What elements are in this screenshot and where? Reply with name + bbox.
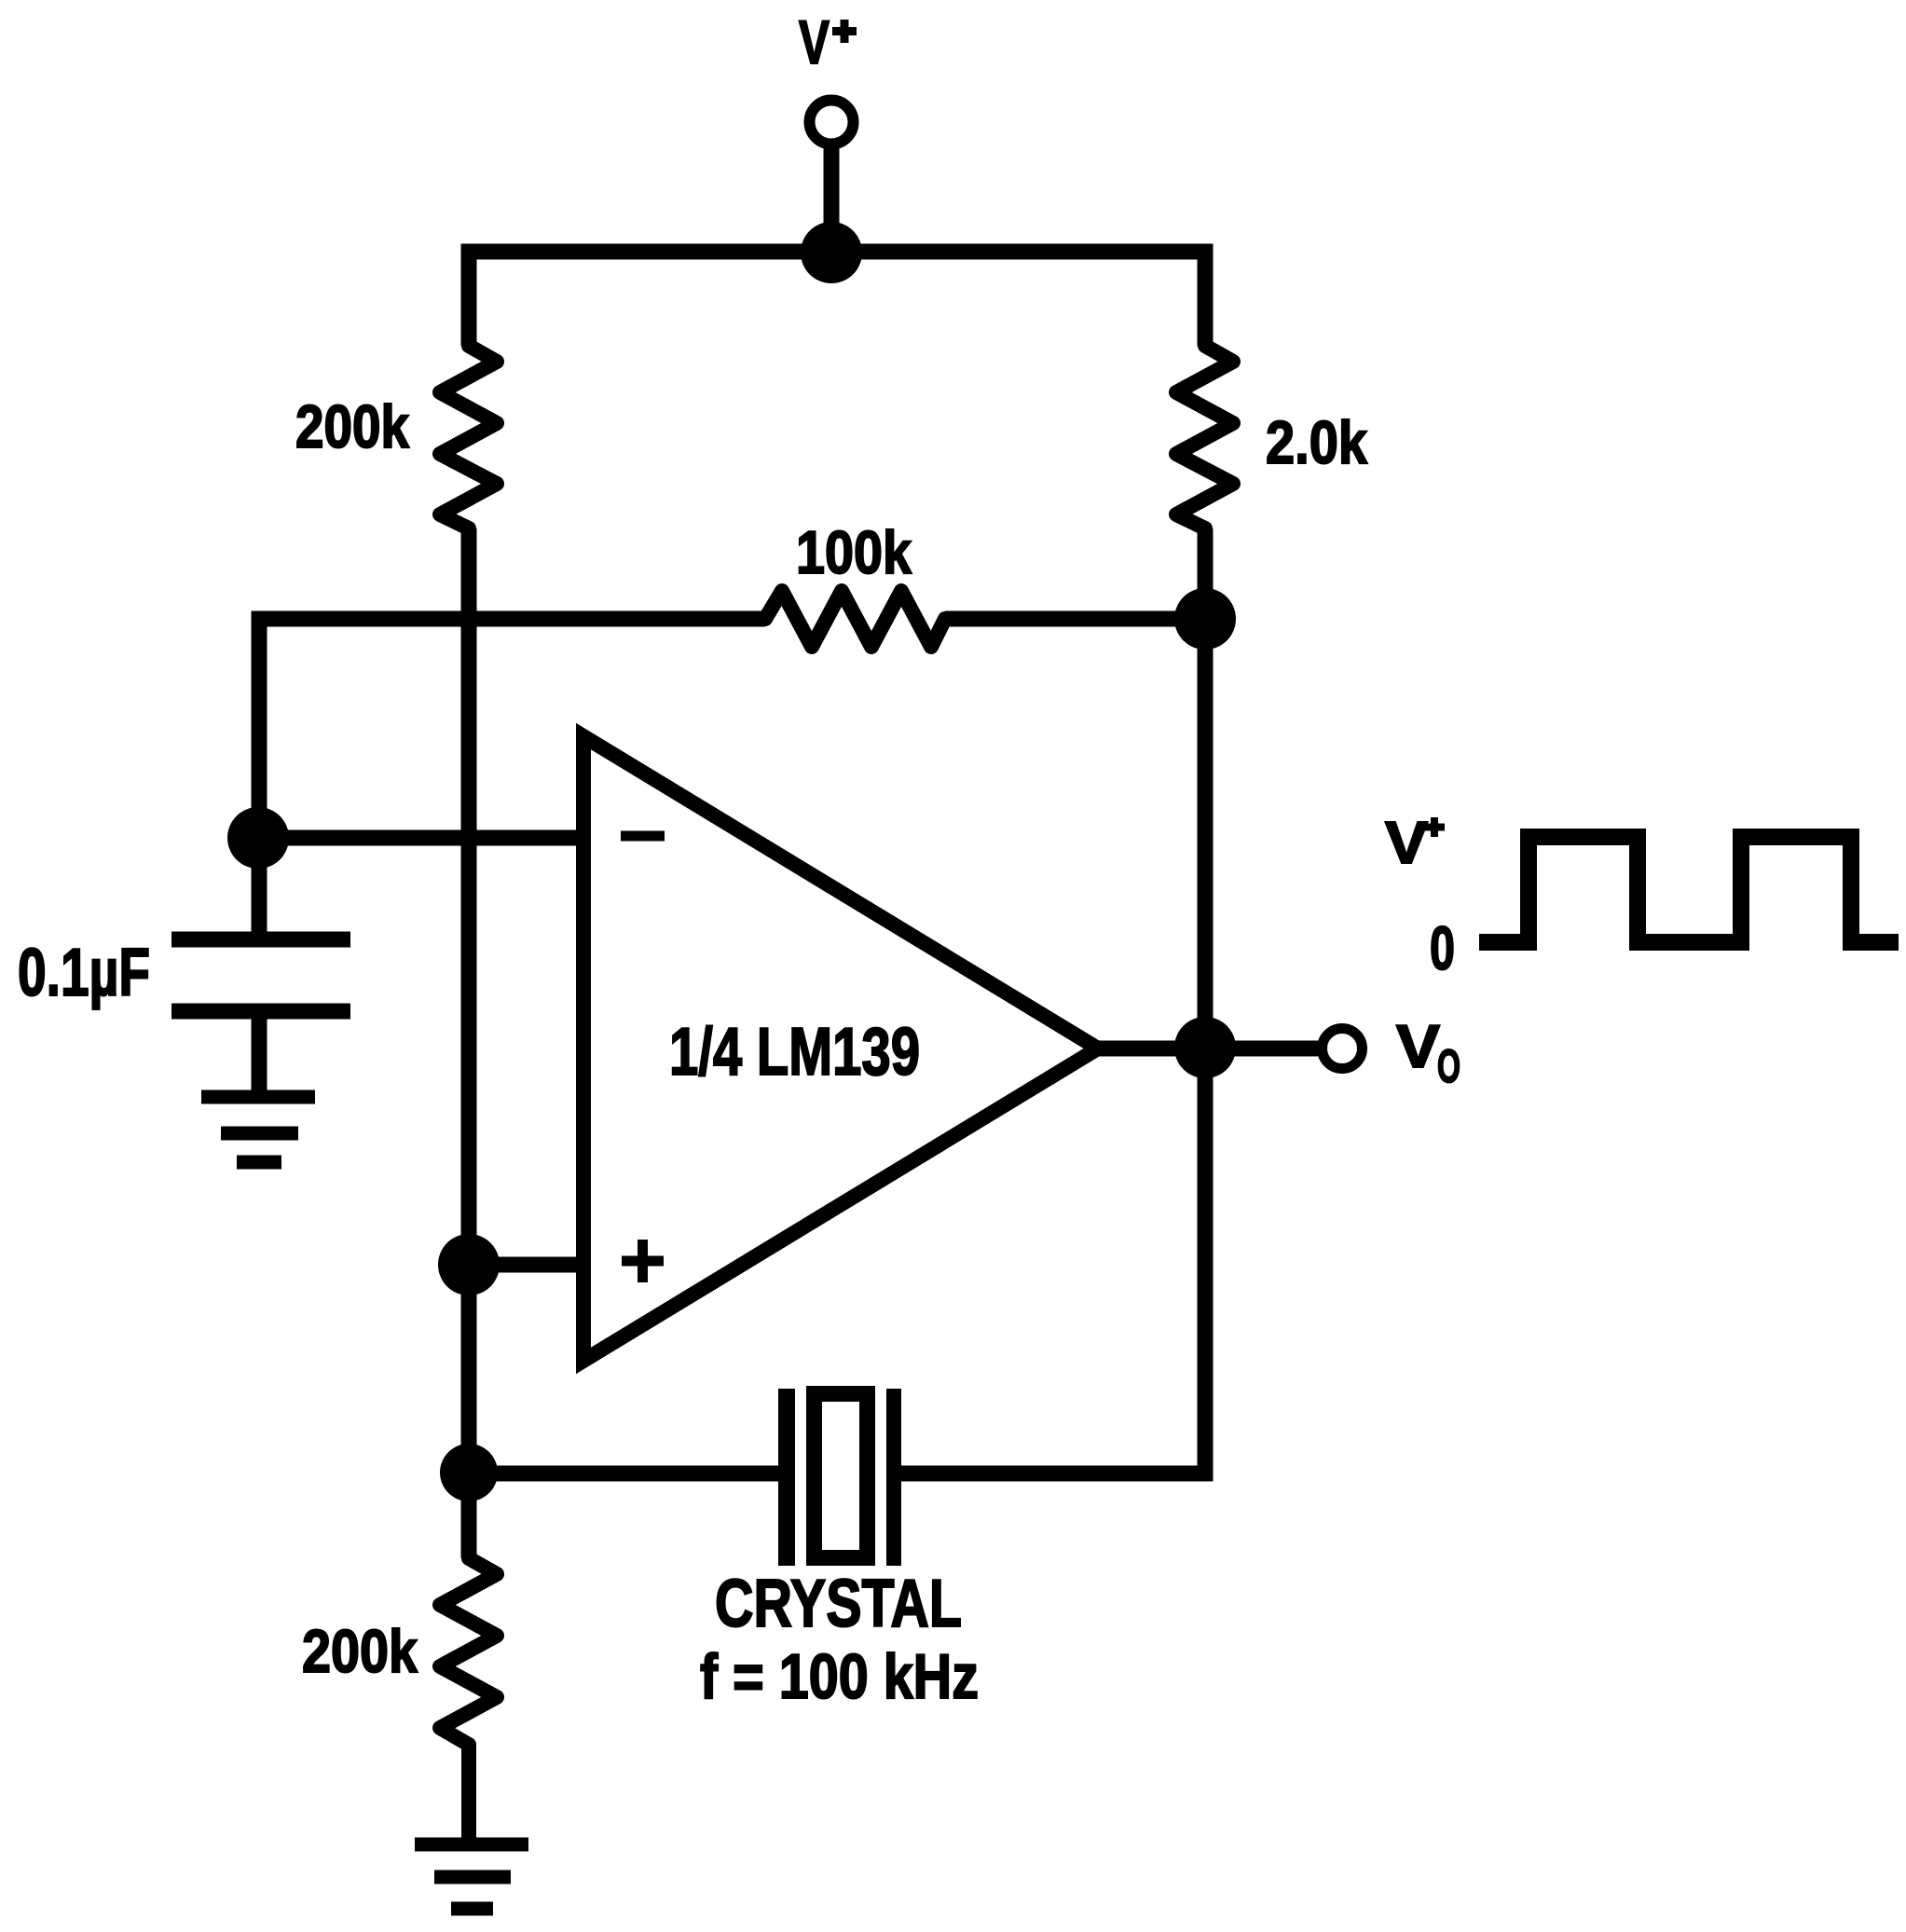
svg-text:1/4 LM139: 1/4 LM139 (669, 1015, 920, 1089)
svg-text:O: O (1437, 1040, 1460, 1092)
svg-text:V: V (1396, 1012, 1440, 1080)
svg-text:V: V (799, 7, 830, 76)
svg-text:CRYSTAL: CRYSTAL (715, 1567, 962, 1641)
svg-text:0: 0 (1430, 913, 1455, 982)
svg-text:f = 100 kHz: f = 100 kHz (700, 1641, 979, 1712)
svg-text:200k: 200k (295, 392, 410, 460)
svg-text:2.0k: 2.0k (1266, 408, 1368, 476)
svg-text:V: V (1385, 809, 1428, 876)
svg-text:100k: 100k (796, 518, 912, 586)
svg-text:200k: 200k (302, 1617, 418, 1685)
svg-text:0.1µF: 0.1µF (18, 936, 150, 1010)
